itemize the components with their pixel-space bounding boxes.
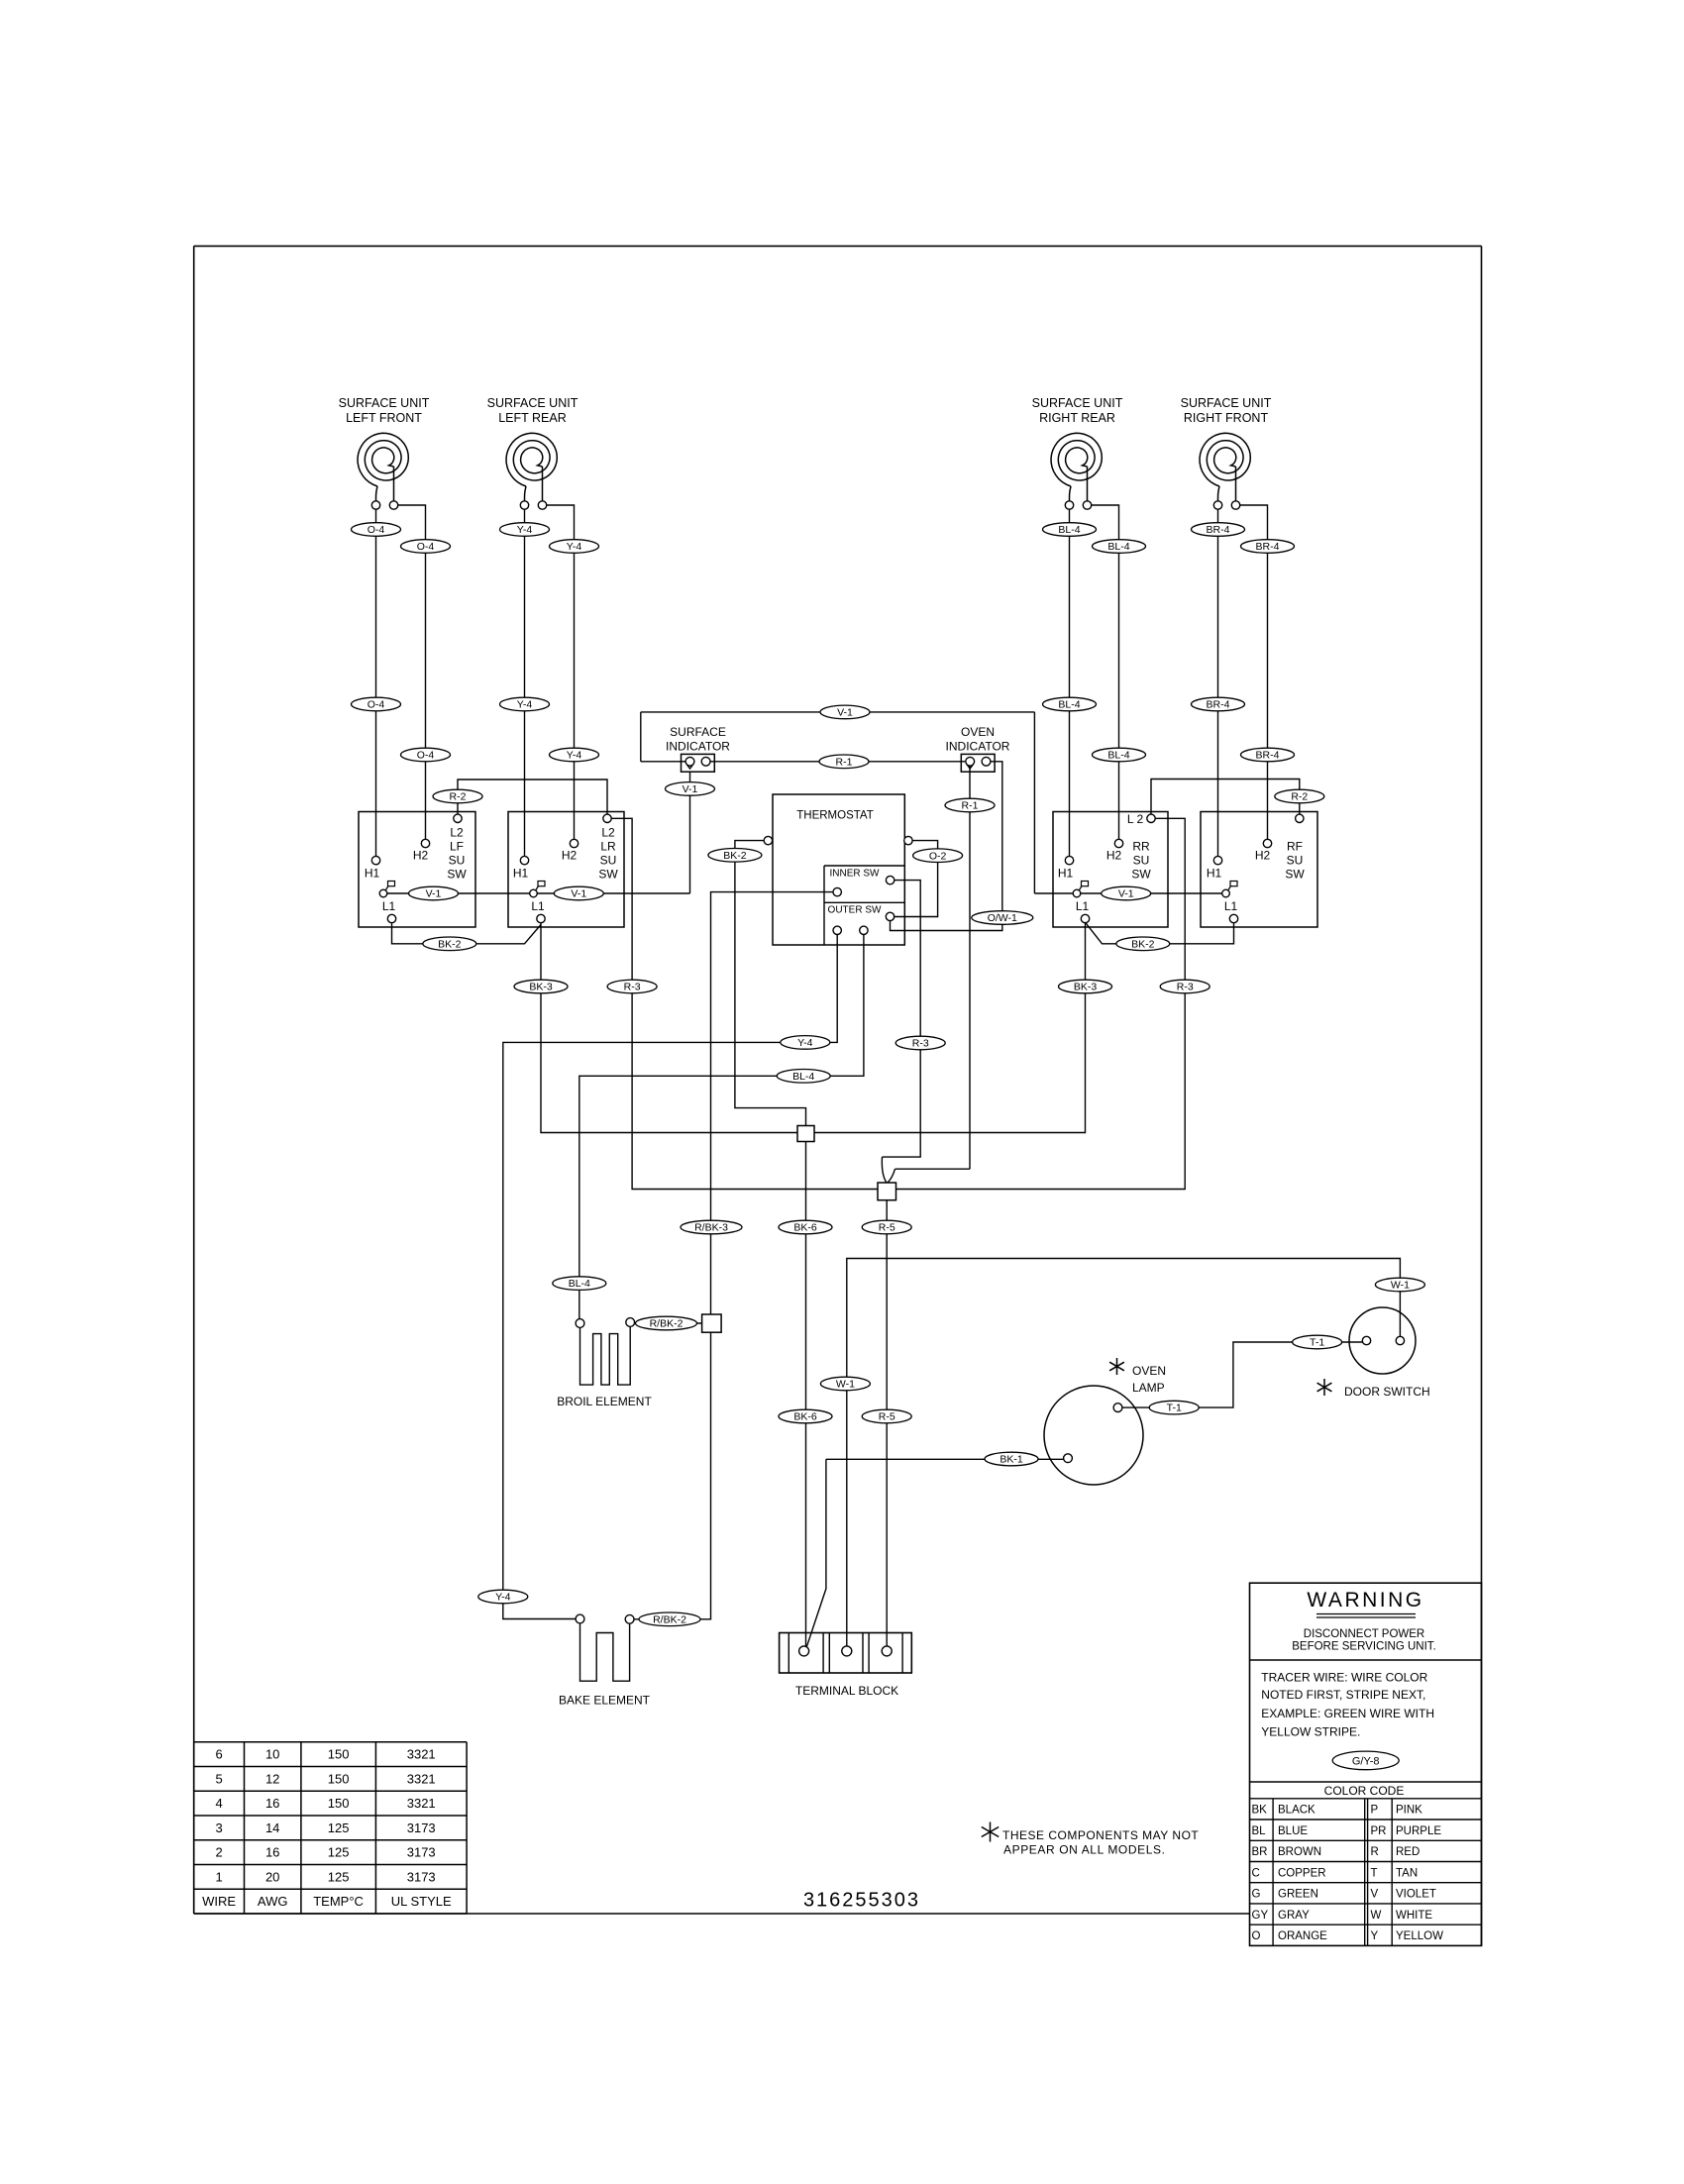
svg-text:EXAMPLE: GREEN WIRE WITH: EXAMPLE: GREEN WIRE WITH [1261, 1707, 1434, 1720]
svg-text:V-1: V-1 [571, 888, 586, 900]
svg-text:TEMP°C: TEMP°C [313, 1894, 364, 1909]
svg-text:T-1: T-1 [1310, 1337, 1324, 1349]
svg-text:SW: SW [598, 868, 618, 882]
svg-text:THESE COMPONENTS MAY NOT: THESE COMPONENTS MAY NOT [1002, 1828, 1199, 1842]
svg-text:V-1: V-1 [683, 783, 698, 795]
svg-text:COPPER: COPPER [1278, 1867, 1326, 1879]
svg-text:LF: LF [450, 840, 464, 854]
svg-text:BK: BK [1252, 1805, 1268, 1817]
svg-text:OVEN: OVEN [1132, 1364, 1166, 1378]
svg-text:125: 125 [328, 1869, 350, 1884]
svg-text:RED: RED [1396, 1846, 1420, 1858]
svg-text:R-5: R-5 [879, 1411, 895, 1423]
svg-text:R/BK-2: R/BK-2 [650, 1318, 684, 1330]
svg-text:316255303: 316255303 [803, 1890, 920, 1912]
svg-text:H1: H1 [1207, 867, 1222, 881]
svg-text:SURFACE: SURFACE [670, 725, 726, 739]
svg-text:TRACER WIRE: WIRE COLOR: TRACER WIRE: WIRE COLOR [1261, 1671, 1427, 1685]
svg-text:LAMP: LAMP [1132, 1381, 1165, 1395]
svg-text:16: 16 [265, 1845, 279, 1860]
svg-text:10: 10 [265, 1747, 279, 1762]
svg-text:BL-4: BL-4 [1107, 750, 1129, 762]
svg-text:O-4: O-4 [368, 699, 385, 711]
svg-text:H2: H2 [1106, 849, 1122, 863]
svg-text:3173: 3173 [407, 1869, 436, 1884]
svg-text:PR: PR [1371, 1825, 1387, 1837]
svg-text:Y-4: Y-4 [567, 541, 582, 553]
svg-text:BAKE ELEMENT: BAKE ELEMENT [559, 1694, 651, 1708]
svg-text:SU: SU [1287, 854, 1304, 868]
svg-text:H1: H1 [1058, 867, 1074, 881]
svg-text:BROIL ELEMENT: BROIL ELEMENT [557, 1395, 652, 1408]
svg-text:PURPLE: PURPLE [1396, 1825, 1441, 1837]
svg-text:ORANGE: ORANGE [1278, 1930, 1327, 1942]
svg-text:R-1: R-1 [962, 800, 979, 812]
svg-text:3173: 3173 [407, 1845, 436, 1860]
svg-text:SU: SU [449, 854, 466, 868]
svg-text:C: C [1252, 1867, 1260, 1879]
svg-text:5: 5 [215, 1771, 222, 1786]
svg-text:G: G [1252, 1889, 1261, 1901]
svg-text:20: 20 [265, 1869, 279, 1884]
svg-text:NOTED FIRST, STRIPE NEXT,: NOTED FIRST, STRIPE NEXT, [1261, 1688, 1425, 1702]
svg-text:APPEAR ON ALL MODELS.: APPEAR ON ALL MODELS. [1003, 1843, 1166, 1857]
svg-text:BL-4: BL-4 [1058, 524, 1080, 536]
svg-text:LEFT REAR: LEFT REAR [498, 411, 567, 425]
svg-text:O-2: O-2 [929, 850, 947, 862]
svg-text:L1: L1 [1224, 899, 1238, 913]
svg-text:LR: LR [600, 840, 616, 854]
svg-text:SU: SU [600, 854, 617, 868]
svg-text:VIOLET: VIOLET [1396, 1889, 1436, 1901]
svg-text:V-1: V-1 [426, 888, 442, 900]
svg-text:L 2: L 2 [1127, 812, 1144, 826]
svg-text:T-1: T-1 [1167, 1403, 1182, 1414]
svg-text:R-5: R-5 [879, 1222, 895, 1234]
svg-text:SURFACE UNIT: SURFACE UNIT [487, 396, 579, 410]
svg-text:R-2: R-2 [1291, 791, 1308, 803]
svg-text:GREEN: GREEN [1278, 1889, 1318, 1901]
svg-text:BK-3: BK-3 [1074, 982, 1098, 993]
svg-text:SW: SW [1285, 868, 1305, 882]
svg-text:H1: H1 [513, 867, 529, 881]
svg-text:RR: RR [1132, 840, 1150, 854]
svg-text:GRAY: GRAY [1278, 1910, 1310, 1922]
svg-text:T: T [1371, 1867, 1378, 1879]
svg-text:TERMINAL BLOCK: TERMINAL BLOCK [795, 1684, 898, 1698]
svg-text:P: P [1371, 1805, 1379, 1817]
svg-text:H2: H2 [413, 849, 429, 863]
svg-text:BK-3: BK-3 [529, 982, 553, 993]
svg-text:WIRE: WIRE [202, 1894, 236, 1909]
svg-text:RIGHT REAR: RIGHT REAR [1039, 411, 1115, 425]
svg-text:RF: RF [1287, 840, 1303, 854]
svg-text:W-1: W-1 [1391, 1280, 1410, 1292]
svg-text:UL STYLE: UL STYLE [391, 1894, 452, 1909]
svg-text:BR-4: BR-4 [1256, 750, 1280, 762]
svg-text:6: 6 [215, 1747, 222, 1762]
svg-text:R/BK-2: R/BK-2 [653, 1613, 686, 1625]
svg-text:L2: L2 [601, 826, 615, 840]
svg-text:BL-4: BL-4 [1107, 541, 1129, 553]
svg-text:O-4: O-4 [368, 524, 385, 536]
svg-text:Y-4: Y-4 [517, 699, 533, 711]
svg-text:L1: L1 [1076, 899, 1090, 913]
svg-text:150: 150 [328, 1771, 350, 1786]
svg-text:Y-4: Y-4 [495, 1592, 511, 1604]
svg-text:INNER SW: INNER SW [830, 869, 881, 880]
svg-text:1: 1 [215, 1869, 222, 1884]
svg-text:YELLOW STRIPE.: YELLOW STRIPE. [1261, 1725, 1360, 1739]
svg-text:V-1: V-1 [837, 707, 853, 719]
svg-text:BK-2: BK-2 [438, 938, 462, 950]
svg-text:BL-4: BL-4 [1058, 699, 1080, 711]
svg-text:BK-6: BK-6 [793, 1411, 817, 1423]
svg-text:G/Y-8: G/Y-8 [1352, 1755, 1380, 1767]
svg-text:L1: L1 [382, 899, 396, 913]
svg-text:BR: BR [1252, 1846, 1268, 1858]
svg-text:SW: SW [1131, 868, 1151, 882]
svg-text:3321: 3321 [407, 1771, 436, 1786]
svg-text:THERMOSTAT: THERMOSTAT [796, 810, 874, 822]
svg-text:OUTER SW: OUTER SW [828, 905, 882, 916]
svg-text:W-1: W-1 [836, 1379, 855, 1391]
svg-text:W: W [1371, 1910, 1382, 1922]
svg-text:3: 3 [215, 1820, 222, 1835]
svg-text:R-3: R-3 [912, 1038, 929, 1050]
svg-text:BK-6: BK-6 [793, 1222, 817, 1234]
svg-text:125: 125 [328, 1820, 350, 1835]
svg-text:Y: Y [1371, 1930, 1379, 1942]
svg-text:R/BK-3: R/BK-3 [694, 1222, 728, 1234]
svg-text:125: 125 [328, 1845, 350, 1860]
svg-text:COLOR CODE: COLOR CODE [1324, 1784, 1405, 1798]
svg-text:L2: L2 [450, 826, 464, 840]
svg-text:BLACK: BLACK [1278, 1805, 1316, 1817]
svg-text:3321: 3321 [407, 1747, 436, 1762]
svg-text:R-3: R-3 [1177, 982, 1194, 993]
svg-text:GY: GY [1252, 1910, 1269, 1922]
svg-text:YELLOW: YELLOW [1396, 1930, 1443, 1942]
svg-text:SURFACE UNIT: SURFACE UNIT [1181, 396, 1272, 410]
svg-text:SU: SU [1133, 854, 1150, 868]
svg-text:R-3: R-3 [624, 982, 641, 993]
svg-text:BL-4: BL-4 [569, 1278, 590, 1290]
svg-text:BR-4: BR-4 [1207, 699, 1230, 711]
svg-text:DISCONNECT POWER: DISCONNECT POWER [1304, 1628, 1424, 1640]
svg-text:SURFACE UNIT: SURFACE UNIT [1032, 396, 1123, 410]
svg-text:BL: BL [1252, 1825, 1267, 1837]
svg-text:BLUE: BLUE [1278, 1825, 1308, 1837]
svg-text:RIGHT FRONT: RIGHT FRONT [1184, 411, 1269, 425]
svg-text:LEFT FRONT: LEFT FRONT [346, 411, 422, 425]
svg-text:SW: SW [447, 868, 467, 882]
svg-text:BROWN: BROWN [1278, 1846, 1321, 1858]
svg-text:150: 150 [328, 1747, 350, 1762]
svg-text:O: O [1252, 1930, 1261, 1942]
svg-text:DOOR SWITCH: DOOR SWITCH [1344, 1385, 1430, 1399]
svg-text:O-4: O-4 [417, 750, 435, 762]
svg-text:BEFORE SERVICING UNIT.: BEFORE SERVICING UNIT. [1292, 1641, 1435, 1653]
svg-text:AWG: AWG [258, 1894, 288, 1909]
svg-text:OVEN: OVEN [961, 725, 995, 739]
svg-text:4: 4 [215, 1796, 222, 1811]
svg-text:INDICATOR: INDICATOR [666, 740, 730, 754]
svg-text:WHITE: WHITE [1396, 1910, 1432, 1922]
svg-text:H2: H2 [562, 849, 578, 863]
svg-text:H2: H2 [1255, 849, 1271, 863]
svg-text:150: 150 [328, 1796, 350, 1811]
svg-text:Y-4: Y-4 [567, 750, 582, 762]
svg-text:12: 12 [265, 1771, 279, 1786]
svg-text:L1: L1 [531, 899, 545, 913]
svg-text:Y-4: Y-4 [517, 524, 533, 536]
svg-text:14: 14 [265, 1820, 279, 1835]
svg-text:PINK: PINK [1396, 1805, 1422, 1817]
svg-text:R-2: R-2 [450, 791, 467, 803]
svg-text:BK-2: BK-2 [723, 850, 747, 862]
svg-text:3173: 3173 [407, 1820, 436, 1835]
svg-text:SURFACE UNIT: SURFACE UNIT [339, 396, 430, 410]
svg-text:Y-4: Y-4 [797, 1037, 813, 1049]
svg-text:H1: H1 [365, 867, 380, 881]
svg-text:BK-1: BK-1 [1000, 1454, 1023, 1466]
svg-text:V-1: V-1 [1118, 888, 1134, 900]
svg-text:2: 2 [215, 1845, 222, 1860]
svg-text:16: 16 [265, 1796, 279, 1811]
svg-text:BR-4: BR-4 [1256, 541, 1280, 553]
svg-text:BR-4: BR-4 [1207, 524, 1230, 536]
svg-text:BK-2: BK-2 [1131, 938, 1155, 950]
svg-text:O/W-1: O/W-1 [988, 912, 1017, 924]
svg-text:BL-4: BL-4 [792, 1071, 814, 1083]
svg-text:3321: 3321 [407, 1796, 436, 1811]
svg-text:R: R [1371, 1846, 1379, 1858]
svg-text:V: V [1371, 1889, 1379, 1901]
svg-text:WARNING: WARNING [1307, 1589, 1423, 1612]
svg-text:TAN: TAN [1396, 1867, 1418, 1879]
svg-text:O-4: O-4 [417, 541, 435, 553]
svg-text:R-1: R-1 [836, 756, 853, 768]
svg-text:INDICATOR: INDICATOR [946, 740, 1010, 754]
